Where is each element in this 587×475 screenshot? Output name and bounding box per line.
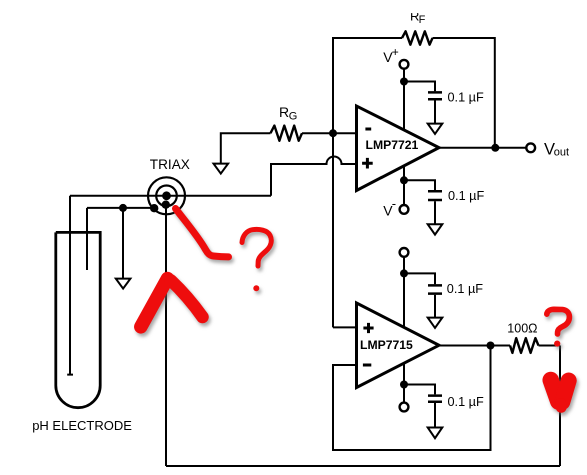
wire to capacitor C2	[404, 180, 435, 190]
junction node output U2	[487, 342, 495, 350]
red annotation heart	[551, 380, 569, 407]
svg-text:pH ELECTRODE: pH ELECTRODE	[32, 418, 132, 433]
triax connector outer shield circle	[148, 177, 185, 214]
red annotation question mark right	[547, 309, 570, 334]
junction node output U1 feedback	[491, 144, 499, 152]
red annotation caret left stroke	[141, 279, 168, 327]
triax center pin dot	[162, 191, 171, 200]
red annotation slash from triax	[176, 209, 229, 257]
wire noninverting input of U1 with hop over feedback wire	[271, 157, 357, 196]
label minus input U1	[365, 128, 371, 131]
wire RG left to ground	[221, 133, 271, 163]
ground symbol C3	[428, 318, 443, 328]
wire C2 to ground	[434, 201, 436, 224]
svg-text:+: +	[392, 45, 399, 59]
wire to capacitor C4	[404, 385, 435, 395]
svg-text:out: out	[554, 146, 569, 158]
junction node V+ U2	[400, 269, 408, 277]
svg-text:0.1 µF: 0.1 µF	[447, 282, 483, 296]
wire RG to inverting node	[302, 132, 333, 134]
wire to capacitor C1	[404, 82, 435, 92]
wire bottom horizontal run	[166, 465, 560, 467]
wire V- supply pin U1	[403, 166, 405, 205]
wire RF right to output node	[433, 38, 495, 148]
wire U2 noninverting input	[333, 326, 357, 328]
wire U1 output to Vout	[439, 147, 526, 149]
label plus input U1	[362, 158, 373, 169]
wire C1 to ground	[434, 100, 436, 123]
wire to capacitor C3	[404, 273, 435, 284]
capacitor C3 plates	[428, 285, 442, 293]
capacitor C1 plates	[428, 92, 442, 99]
resistor RG	[271, 126, 303, 141]
svg-text:0.1 µF: 0.1 µF	[448, 189, 484, 203]
wire ground branch	[122, 208, 124, 279]
wire V+ supply pin U2	[403, 257, 405, 328]
terminal V+ of U2	[400, 248, 409, 257]
wire inverting input of U1	[333, 132, 357, 134]
op-amp U1 LMP7721 triangle	[357, 106, 440, 191]
resistor RF	[402, 31, 433, 44]
terminal Vout circle	[526, 143, 535, 152]
svg-text:R: R	[279, 104, 289, 120]
terminal V- of U1	[400, 205, 409, 214]
wire triax center to U1 +in	[70, 195, 271, 197]
wire electrode reference to shield	[87, 207, 154, 209]
wire V- supply pin U2	[403, 363, 405, 402]
label V- of U1	[383, 196, 396, 218]
junction node shield on triax	[150, 204, 158, 212]
ground symbol at RG	[214, 164, 229, 174]
ground symbol C2	[428, 224, 443, 234]
wire pH electrode center conductor	[67, 196, 73, 375]
wire U2 feedback box	[333, 346, 491, 451]
ground symbol C1	[428, 124, 443, 134]
label V+ of U1	[383, 45, 399, 65]
wire V+ supply pin U1	[403, 69, 405, 130]
capacitor C2 plates	[428, 191, 442, 200]
junction node V- U2	[400, 381, 408, 389]
ground symbol C4	[428, 428, 443, 439]
svg-text:G: G	[289, 110, 298, 122]
label minus input U2	[363, 364, 371, 367]
svg-text:100Ω: 100Ω	[507, 322, 537, 336]
wire C3 to ground	[434, 295, 436, 318]
wire 100 ohm right	[539, 345, 561, 347]
red annotation caret right stroke	[171, 281, 203, 318]
wire U2 output to 100 ohm	[439, 345, 510, 347]
svg-text:LMP7715: LMP7715	[360, 338, 413, 352]
svg-text:F: F	[419, 14, 426, 26]
resistor R 100 ohm	[510, 338, 539, 353]
op-amp U2 LMP7715 triangle	[357, 303, 440, 388]
junction node guard on triax	[162, 201, 170, 209]
terminal V- of U2	[400, 403, 409, 412]
label Vout	[544, 140, 569, 158]
label RG	[279, 104, 297, 123]
svg-text:-: -	[392, 196, 396, 211]
wire C4 to ground	[434, 403, 436, 428]
junction node ground branch	[119, 204, 127, 212]
junction node V+ U1	[400, 78, 408, 86]
wire guard vertical from triax down	[165, 205, 167, 466]
svg-text:0.1 µF: 0.1 µF	[448, 395, 484, 409]
svg-text:0.1 µF: 0.1 µF	[448, 90, 484, 104]
red annotation question mark right dot	[554, 341, 560, 347]
pH electrode glass tube	[56, 232, 100, 407]
wire feedback left vertical (RF/RG node to LMP7715 +in)	[333, 38, 402, 327]
svg-text:LMP7721: LMP7721	[366, 138, 419, 152]
ground symbol at electrode shield	[116, 279, 131, 289]
svg-text:TRIAX: TRIAX	[150, 157, 190, 172]
triax connector guard ring circle	[156, 186, 177, 207]
capacitor C4 plates	[428, 396, 442, 402]
junction node V- U1	[400, 176, 408, 184]
junction node RG/RF at inverting input	[329, 129, 337, 137]
label RF (top clipped)	[400, 0, 440, 26]
red annotation question mark left	[242, 229, 271, 266]
wire right vertical up to 100 ohm	[559, 346, 561, 467]
label plus input U2	[363, 323, 373, 333]
terminal V+ of U1	[400, 60, 409, 69]
wire electrode reference down into tube	[86, 208, 88, 270]
red annotation question mark left dot	[253, 285, 259, 291]
